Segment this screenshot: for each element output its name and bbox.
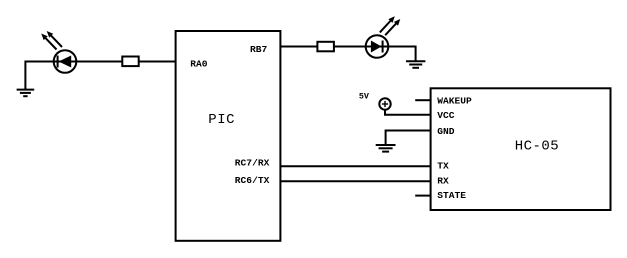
- svg-text:STATE: STATE: [437, 190, 466, 201]
- svg-text:PIC: PIC: [208, 112, 235, 128]
- svg-text:RB7: RB7: [250, 44, 268, 55]
- svg-text:GND: GND: [437, 126, 455, 137]
- svg-text:RX: RX: [437, 175, 449, 186]
- svg-text:RC7/RX: RC7/RX: [235, 158, 270, 169]
- svg-text:RA0: RA0: [190, 59, 208, 70]
- svg-text:RC6/TX: RC6/TX: [235, 175, 270, 186]
- svg-text:VCC: VCC: [437, 110, 455, 121]
- svg-text:TX: TX: [437, 160, 449, 171]
- svg-text:5V: 5V: [359, 92, 370, 102]
- svg-text:HC-05: HC-05: [515, 138, 560, 154]
- svg-text:WAKEUP: WAKEUP: [437, 96, 472, 107]
